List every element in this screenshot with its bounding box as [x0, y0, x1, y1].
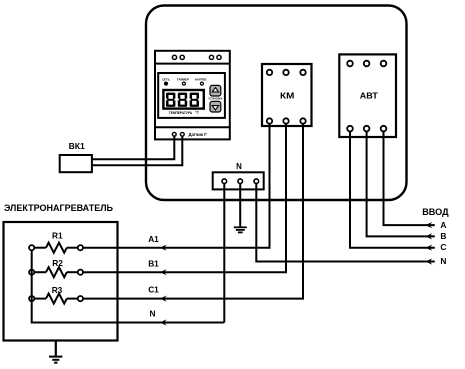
svg-text:Датчик t°: Датчик t°: [189, 132, 208, 137]
arrow A1: [160, 245, 167, 251]
sensor BK1 box: [60, 155, 92, 172]
svg-text:N: N: [150, 309, 156, 319]
node R2 left: [29, 270, 34, 275]
display window: [163, 90, 203, 109]
svg-text:ЭЛЕКТРОНАГРЕВАТЕЛЬ: ЭЛЕКТРОНАГРЕВАТЕЛЬ: [4, 203, 113, 214]
KM top terminal 2: [283, 70, 288, 75]
svg-text:C: C: [440, 242, 446, 252]
thermostat top terminal 2: [180, 55, 184, 59]
wire heater box to ground: [55, 341, 57, 356]
thermostat top terminal 4: [217, 55, 221, 59]
svg-text:R1: R1: [52, 230, 63, 240]
wire feed C: ABT bottom 1 to input C: [350, 132, 435, 248]
svg-text:B: B: [440, 231, 446, 241]
svg-text:B1: B1: [148, 258, 159, 268]
thermostat top terminal 1: [172, 55, 176, 59]
enclosure (control cabinet): [146, 6, 407, 201]
svg-text:СЕТЬ: СЕТЬ: [162, 78, 170, 82]
thermostat front panel: [158, 73, 225, 118]
N block terminal 3: [254, 179, 259, 184]
wire heater neutral bus: [32, 250, 225, 322]
digit 8 (3): [189, 93, 199, 107]
sensor terminal 2: [180, 132, 184, 136]
LED ТАЙМЕР: [182, 82, 185, 85]
svg-text:ВК1: ВК1: [69, 141, 85, 151]
arrow feed C: [426, 245, 433, 251]
thermostat top terminal 3: [209, 55, 213, 59]
node R3 right: [78, 296, 83, 301]
wire feed A: ABT bottom 3 to input A: [384, 132, 435, 226]
svg-text:R2: R2: [52, 258, 63, 268]
digit 8 (2): [178, 93, 188, 107]
svg-text:ТАЙМЕР: ТАЙМЕР: [177, 78, 189, 82]
wire N block terminal 2 to ground: [239, 184, 241, 227]
ABT bottom terminal 3: [381, 126, 387, 132]
ground (N block): [234, 227, 247, 232]
svg-text:НАГРЕВ: НАГРЕВ: [195, 78, 207, 82]
wire feed B: ABT bottom 2 to input B: [367, 132, 435, 237]
digit 8 (1): [166, 93, 176, 107]
KM bottom terminal 2: [283, 118, 288, 123]
sensor terminal 1: [172, 132, 176, 136]
ABT bottom terminal 2: [364, 126, 370, 132]
wire B1: KM bottom 2 to R2: [83, 124, 286, 272]
svg-text:УСТАНОВКА: УСТАНОВКА: [208, 97, 222, 100]
contactor KM box: [262, 64, 312, 126]
heater box: [4, 222, 118, 341]
wire feed N: N block terminal 3 to input N: [256, 184, 435, 262]
arrow B1: [160, 269, 167, 275]
ABT top terminal 1: [347, 61, 353, 67]
svg-text:N: N: [440, 256, 446, 266]
arrow N heater: [160, 319, 167, 325]
node R1 right: [78, 245, 83, 250]
neutral terminal block N: [213, 172, 264, 189]
ABT top terminal 3: [381, 61, 387, 67]
breaker ABT box: [339, 54, 396, 137]
resistor R3: [34, 294, 78, 304]
LED НАГРЕВ: [200, 82, 203, 85]
svg-text:A: A: [440, 220, 446, 230]
wire BK1 to sensor terminal 1: [92, 137, 174, 160]
arrow feed A: [426, 222, 433, 228]
ABT top terminal 2: [364, 61, 370, 67]
wire N riser to N block terminal 1: [223, 184, 225, 323]
resistor R2: [34, 267, 78, 277]
svg-text:ТЕМПЕРАТУРА: ТЕМПЕРАТУРА: [169, 111, 193, 115]
svg-text:КМ: КМ: [280, 92, 294, 101]
LED СЕТЬ (on): [165, 82, 168, 85]
node R2 right: [78, 270, 83, 275]
wire C1: KM bottom 3 to R3: [83, 124, 303, 299]
node R1 left: [29, 245, 34, 250]
ABT bottom terminal 1: [347, 126, 353, 132]
ground (heater): [49, 357, 62, 363]
N block terminal 1: [222, 179, 227, 184]
N block terminal 2: [238, 179, 243, 184]
KM top terminal 1: [267, 70, 272, 75]
KM bottom terminal 3: [300, 118, 305, 123]
KM bottom terminal 1: [267, 118, 272, 123]
svg-text:R3: R3: [52, 285, 63, 295]
thermostat U1 body: [155, 51, 230, 140]
wire A1: KM bottom 1 to R1: [83, 124, 269, 248]
svg-text:N: N: [236, 162, 242, 171]
KM top terminal 3: [300, 70, 305, 75]
svg-text:ВВОД: ВВОД: [422, 207, 449, 217]
button down SB2: [210, 101, 221, 112]
svg-text:АВТ: АВТ: [360, 91, 378, 100]
arrow C1: [160, 296, 167, 302]
wire BK1 to sensor terminal 2: [92, 137, 182, 166]
arrow feed N: [426, 258, 433, 264]
button up SB1: [210, 85, 221, 96]
svg-text:A1: A1: [148, 234, 159, 244]
node R3 left: [29, 296, 34, 301]
resistor R1: [34, 243, 78, 253]
svg-text:C1: C1: [148, 285, 159, 295]
arrow feed B: [426, 233, 433, 239]
